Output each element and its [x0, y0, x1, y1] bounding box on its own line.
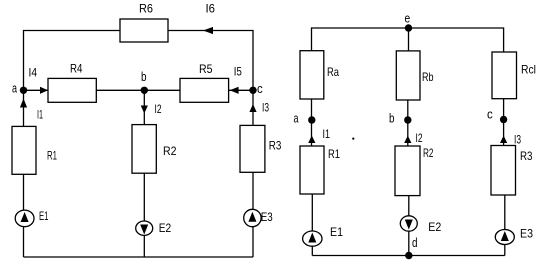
svg-text:E2: E2 [159, 221, 172, 235]
current arrow I2 right [404, 136, 411, 144]
svg-text:R2: R2 [163, 144, 177, 158]
label I1 right [323, 127, 331, 141]
current arrow I2 [141, 106, 148, 114]
label R6 [139, 2, 153, 16]
wire b down to R2 [143, 90, 145, 124]
wire E1 to bottom [23, 227, 25, 257]
svg-text:E3: E3 [520, 227, 533, 241]
source E1 arrow [21, 212, 29, 222]
wire Ra to node a [311, 99, 313, 146]
resistor R1 [12, 126, 36, 174]
svg-text:Ra: Ra [327, 65, 339, 79]
svg-text:R3: R3 [520, 149, 533, 163]
wire Rb to node b [407, 100, 409, 146]
current arrow I1 right [308, 136, 315, 144]
resistor Rb [396, 51, 420, 100]
wire R6 right to top-right corner [168, 31, 253, 91]
node e dot [405, 24, 412, 31]
stray dot [352, 138, 354, 140]
label Rcl [521, 62, 536, 76]
label E2 right [428, 220, 441, 234]
label R4 [70, 61, 83, 75]
resistor R3 right [491, 146, 516, 196]
svg-text:R4: R4 [70, 61, 83, 75]
label R2 right [423, 146, 434, 160]
svg-text:I3: I3 [262, 100, 269, 114]
label I6 [206, 2, 216, 16]
resistor Ra [300, 51, 324, 99]
svg-text:e: e [405, 10, 411, 25]
label node a right [294, 111, 300, 126]
current arrow I4 [40, 87, 48, 94]
label E3 [261, 210, 273, 224]
svg-text:c: c [487, 107, 493, 122]
svg-text:E1: E1 [330, 225, 343, 239]
label E3 right [520, 227, 533, 241]
wire c down to R3 [252, 90, 254, 125]
wire bottom left circuit [24, 256, 254, 258]
svg-text:Rb: Rb [422, 70, 434, 84]
svg-text:I1: I1 [37, 108, 43, 122]
source E2 arrow [140, 225, 148, 235]
label node c [257, 81, 263, 96]
svg-text:I6: I6 [206, 2, 216, 16]
label node b right [389, 111, 395, 126]
svg-text:b: b [389, 111, 395, 126]
wire E3 to bottom [252, 227, 254, 257]
svg-text:I3: I3 [514, 133, 521, 147]
wire node e to Rb [408, 28, 410, 51]
node c dot right [500, 116, 507, 123]
svg-text:R6: R6 [139, 2, 153, 16]
label I5 [234, 65, 242, 79]
current arrow I5 [230, 87, 239, 94]
label node e [405, 10, 411, 25]
svg-text:E3: E3 [261, 210, 273, 224]
resistor R5 [180, 78, 229, 102]
wire R4 to R5 through b [96, 89, 180, 91]
resistor R2 [132, 125, 156, 174]
svg-text:d: d [412, 235, 418, 250]
svg-text:I5: I5 [234, 65, 242, 79]
svg-text:R3: R3 [269, 139, 282, 153]
svg-text:Rcl: Rcl [521, 62, 536, 76]
label node a [12, 81, 18, 96]
svg-text:a: a [294, 111, 300, 126]
source E2 circle right [400, 216, 417, 231]
label R3 [269, 139, 282, 153]
source E2 arrow right [405, 220, 413, 230]
label R1 [47, 149, 57, 163]
svg-text:I4: I4 [29, 66, 38, 80]
source E1 circle right [303, 231, 322, 246]
label E2 [159, 221, 172, 235]
source E2 circle [136, 221, 153, 235]
wire top-left horizontal (a to R6) [24, 31, 121, 91]
wire Rcl to node c [503, 99, 505, 146]
wire left vertical a to R1 [23, 90, 25, 126]
svg-text:b: b [141, 69, 147, 84]
label I3 [262, 100, 269, 114]
wire E3 to bottom right [504, 245, 506, 256]
svg-text:E1: E1 [39, 209, 49, 223]
svg-text:E2: E2 [428, 220, 441, 234]
resistor R4 [48, 78, 96, 102]
source E3 arrow right [501, 231, 509, 241]
current arrow I3 right [500, 136, 507, 144]
label R1 right [328, 147, 340, 161]
label Rb [422, 70, 434, 84]
svg-text:R1: R1 [47, 149, 57, 163]
current arrow I3 [249, 104, 256, 112]
label I2 [155, 102, 162, 116]
wire R1 to E1 right [311, 194, 313, 231]
svg-text:a: a [12, 81, 18, 96]
label I1 [37, 108, 43, 122]
label I2 right [416, 131, 423, 145]
svg-text:c: c [257, 81, 263, 96]
source E1 circle [15, 210, 34, 227]
wire E2 to bottom [143, 235, 145, 257]
source E1 arrow right [308, 233, 316, 243]
node b dot right [404, 116, 411, 123]
label Ra [327, 65, 339, 79]
wire R2 to E2 right [408, 196, 410, 216]
wire R3 to E3 right [504, 195, 506, 230]
resistor R1 right [300, 146, 324, 194]
node d dot [405, 252, 412, 259]
wire bottom right circuit [312, 255, 505, 257]
svg-text:R1: R1 [328, 147, 340, 161]
label R2 [163, 144, 177, 158]
wire E1 to bottom right [311, 246, 313, 255]
node b dot [141, 87, 148, 94]
wire c to R5 [229, 89, 253, 91]
source E3 arrow [248, 212, 256, 222]
svg-text:R2: R2 [423, 146, 434, 160]
svg-text:R5: R5 [199, 62, 213, 76]
node c dot [249, 87, 256, 94]
resistor R3 [240, 125, 265, 172]
wire R1 to E1 [23, 174, 25, 210]
label I3 right [514, 133, 521, 147]
source E3 circle [244, 209, 261, 226]
svg-text:I2: I2 [155, 102, 162, 116]
label E1 [39, 209, 49, 223]
label node c right [487, 107, 493, 122]
label R3 right [520, 149, 533, 163]
wire a to R4 [24, 89, 49, 91]
label I4 [29, 66, 38, 80]
wire R2 to E2 [143, 173, 145, 221]
wire E2 to node d [408, 231, 410, 255]
node a dot right [308, 116, 315, 123]
label R5 [199, 62, 213, 76]
label node d [412, 235, 418, 250]
label node b [141, 69, 147, 84]
svg-text:I1: I1 [323, 127, 331, 141]
resistor R6 [120, 19, 168, 42]
svg-text:I2: I2 [416, 131, 423, 145]
node a dot [20, 87, 27, 94]
wire top right circuit [312, 28, 504, 52]
current arrow I6 [203, 27, 213, 34]
resistor R2 right [395, 146, 420, 196]
label E1 right [330, 225, 343, 239]
current arrow I1 [20, 99, 27, 108]
resistor Rcl [492, 52, 517, 99]
wire R3 to E3 [252, 172, 254, 209]
source E3 circle right [495, 230, 514, 245]
